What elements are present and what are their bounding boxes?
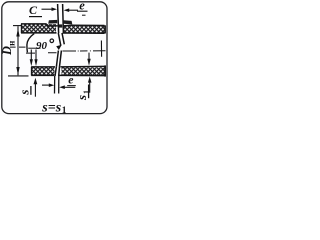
svg-text:s: s — [74, 95, 89, 101]
DH arrow down — [16, 67, 19, 75]
top band lower edge — [21, 32, 57, 34]
DH arrow up — [16, 29, 19, 37]
svg-text:1: 1 — [82, 90, 91, 94]
bottom band upper edge — [31, 66, 55, 68]
bottom band right cap — [104, 65, 106, 76]
C underline — [29, 16, 42, 18]
joint line lower-middle left — [56, 51, 58, 67]
tick crossing centerline right — [100, 41, 102, 57]
C arrow — [42, 8, 54, 10]
axis dash-dot left — [10, 46, 26, 48]
border frame — [2, 2, 107, 114]
svg-text:e: e — [79, 0, 85, 13]
joint extension below band right — [58, 76, 60, 94]
DH dimension line — [17, 26, 19, 75]
svg-text:s=s: s=s — [41, 100, 61, 115]
e arrow (top) — [64, 8, 70, 12]
small tick under e — [82, 14, 86, 16]
joint line upper-middle right — [62, 33, 64, 44]
s upper arrows above bottom band (left pair) — [30, 50, 32, 61]
s1 label rotated — [74, 90, 91, 101]
svg-text:C: C — [29, 3, 38, 17]
s label rotated — [17, 90, 32, 96]
DH dimension extension bottom — [8, 75, 29, 77]
e dimension arrows (bottom) — [42, 84, 50, 86]
svg-text:e: e — [68, 73, 73, 87]
top band upper edge — [21, 24, 58, 26]
centerline right (dash-dot) — [63, 50, 106, 52]
e underline (bottom) — [67, 85, 76, 87]
svg-text:90: 90 — [36, 40, 48, 52]
svg-text:s: s — [17, 90, 32, 96]
joint extension below band left — [54, 76, 56, 94]
axis shelf dashes middle — [26, 52, 57, 54]
pipe wall bottom (hatched band) — [31, 65, 105, 76]
s1 upper arrow (down at band top) — [88, 53, 90, 60]
joint extension line left — [58, 4, 59, 33]
joint line through bottom band right — [58, 67, 61, 76]
pipe wall top (hatched band) — [21, 24, 105, 34]
s dimension (left, below band) arrow up — [34, 78, 38, 84]
s1 dimension (right, below band) arrow up — [88, 77, 92, 83]
svg-text:1: 1 — [62, 106, 67, 116]
weld cap bead over joint — [48, 20, 72, 28]
90 underline — [28, 47, 40, 49]
e underline (top) — [77, 10, 88, 12]
top band right cap — [104, 25, 106, 33]
s underline (vertical) — [30, 86, 32, 95]
bottom band lower edge — [31, 74, 54, 76]
joint line through bottom band left — [55, 67, 56, 76]
svg-text:н: н — [7, 41, 17, 46]
leader arrowhead at joint — [56, 45, 62, 50]
bottom band left cap — [31, 67, 33, 76]
joint extension line right — [62, 4, 65, 33]
top band left cap — [20, 24, 22, 33]
joint line upper-middle left — [58, 33, 61, 46]
joint line lower-middle right — [60, 51, 62, 67]
DH dimension extension top — [13, 25, 21, 27]
angle arc — [27, 34, 34, 53]
DH label — [0, 41, 17, 56]
s1 underline (vertical) — [88, 85, 90, 99]
